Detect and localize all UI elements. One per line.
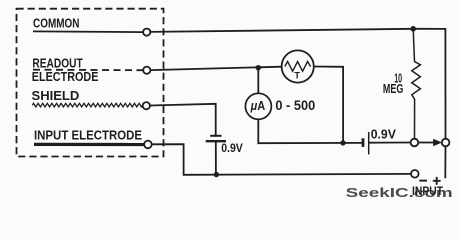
- wire COMMON rail to top-right corner and down: [150, 29, 445, 139]
- wire SHIELD to battery B1: [150, 104, 216, 136]
- wire J2 down to input plus: [444, 146, 446, 178]
- svg-text:0.9V: 0.9V: [371, 127, 397, 141]
- label plus sign: [433, 177, 441, 185]
- wire battery B1 down to bottom rail: [215, 141, 217, 174]
- svg-text:0 - 500: 0 - 500: [275, 98, 315, 113]
- svg-text:COMMON: COMMON: [33, 15, 80, 30]
- wire junction down to microammeter: [257, 68, 259, 94]
- wire thermistor right lead down: [314, 67, 343, 143]
- wire battery B2 to jack J1: [369, 142, 411, 144]
- svg-text:MEG: MEG: [383, 82, 404, 96]
- battery B2 plate right (long): [368, 132, 370, 155]
- battery B2 plate left (short): [362, 138, 365, 147]
- wire INPUT ELECTRODE thick lead: [34, 143, 144, 146]
- wire READOUT dashed lead: [33, 69, 143, 72]
- wire microammeter to mid rail: [258, 119, 362, 143]
- terminal INPUT ELECTRODE (open circle): [144, 141, 152, 149]
- svg-text:INPUT ELECTRODE: INPUT ELECTRODE: [34, 128, 142, 143]
- wire SHIELD resistive zigzag lead: [32, 103, 142, 107]
- node junction readout/meter: [256, 65, 261, 70]
- node junction battery B1 / bottom rail: [214, 172, 219, 177]
- terminal SHIELD (open circle): [143, 102, 150, 109]
- node junction COMMON/resistor: [410, 26, 416, 32]
- wire input electrode to bottom rail: [152, 144, 411, 175]
- battery B1 plate bottom (long): [206, 140, 226, 142]
- svg-text:T: T: [294, 71, 300, 82]
- node junction thermistor / mid rail: [340, 140, 345, 145]
- thermistor circle T: [282, 50, 314, 82]
- wire READOUT to thermistor: [150, 67, 281, 70]
- battery B1 plate top (short): [210, 135, 221, 137]
- wire arrow shaft J1 to J2: [418, 142, 433, 144]
- arrowhead plug direction: [433, 139, 442, 146]
- terminal READOUT (open circle): [143, 67, 150, 74]
- dashed probe enclosure box: [17, 9, 164, 157]
- svg-text:SHIELD: SHIELD: [32, 88, 80, 103]
- label minus sign: [419, 180, 427, 182]
- terminal jack J2 (open circle): [442, 139, 450, 147]
- svg-text:SeekIC.com: SeekIC.com: [346, 185, 453, 200]
- microammeter M1 circle: [245, 93, 271, 119]
- terminal input minus (open circle): [411, 170, 419, 178]
- terminal COMMON (open circle): [143, 28, 150, 35]
- terminal jack J1 (open circle): [411, 139, 419, 147]
- svg-text:0.9V: 0.9V: [221, 141, 243, 155]
- resistor R1 10 MEG zigzag: [412, 29, 421, 139]
- svg-text:μA: μA: [250, 98, 266, 113]
- thermistor internal zigzag: [285, 61, 311, 71]
- svg-text:ELECTRODE: ELECTRODE: [32, 69, 99, 84]
- wire COMMON lead to terminal: [33, 30, 143, 33]
